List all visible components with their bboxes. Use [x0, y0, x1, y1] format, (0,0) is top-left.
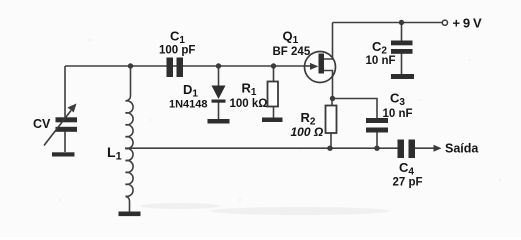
svg-text:Saída: Saída — [445, 142, 479, 156]
svg-text:R1: R1 — [242, 81, 257, 99]
svg-text:100 Ω: 100 Ω — [291, 125, 324, 139]
svg-text:10 nF: 10 nF — [383, 108, 413, 120]
svg-text:C2: C2 — [372, 39, 387, 57]
svg-text:D1: D1 — [183, 82, 198, 100]
svg-text:+ 9 V: + 9 V — [453, 16, 482, 31]
svg-text:100 pF: 100 pF — [159, 45, 195, 57]
svg-text:10 nF: 10 nF — [366, 55, 396, 67]
svg-text:C1: C1 — [170, 29, 185, 47]
svg-text:C4: C4 — [399, 160, 414, 178]
svg-text:Q1: Q1 — [283, 29, 299, 47]
svg-text:L1: L1 — [107, 144, 122, 163]
svg-text:1N4148: 1N4148 — [169, 99, 208, 111]
svg-text:BF 245: BF 245 — [273, 46, 311, 58]
svg-text:27 pF: 27 pF — [393, 177, 423, 189]
svg-text:100 kΩ: 100 kΩ — [230, 98, 268, 110]
svg-text:C3: C3 — [390, 91, 405, 109]
svg-text:CV: CV — [33, 117, 51, 131]
